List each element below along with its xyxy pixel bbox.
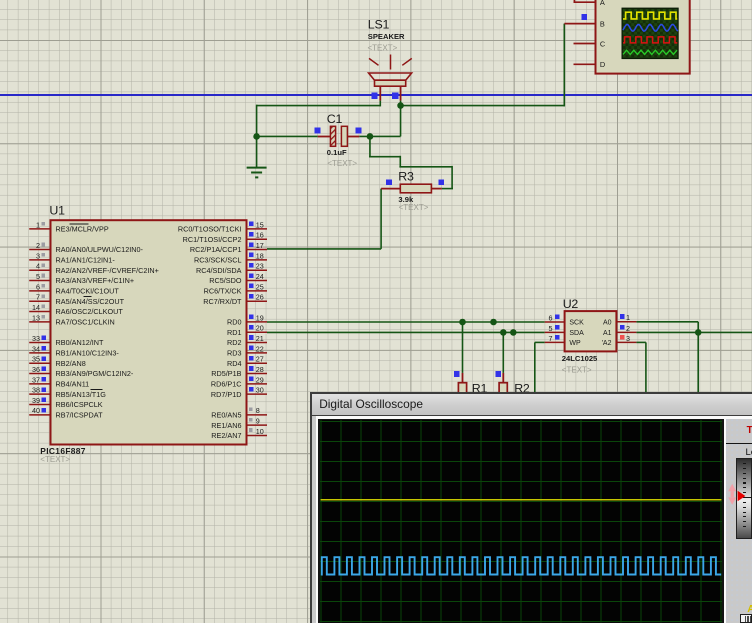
oscilloscope pin B [564, 19, 605, 28]
resistor R2 [499, 373, 507, 397]
svg-text:3: 3 [626, 334, 630, 343]
svg-text:C1: C1 [327, 112, 343, 126]
svg-text:5: 5 [36, 272, 40, 281]
svg-text:LS1: LS1 [368, 18, 390, 32]
svg-text:<TEXT>: <TEXT> [327, 159, 357, 168]
svg-text:RD4: RD4 [227, 359, 242, 368]
svg-text:38: 38 [32, 386, 40, 395]
svg-text:5: 5 [549, 324, 553, 333]
wire U2 A2 down [636, 341, 646, 343]
svg-text:RB4/AN11: RB4/AN11 [56, 379, 90, 388]
svg-text:RE1/AN6: RE1/AN6 [211, 421, 241, 430]
wire U2 A1 node right and down [636, 331, 752, 333]
C1 handle right [356, 128, 362, 134]
speaker pin 2 [400, 86, 402, 100]
wire speaker-right to scope pin B [401, 105, 565, 107]
svg-text:21: 21 [256, 334, 264, 343]
wire speaker-right down to C1-right node [400, 105, 402, 137]
U2 pin 5 SDA [545, 324, 584, 337]
svg-text:30: 30 [256, 386, 264, 395]
wire R2 top to RD1 net [502, 332, 504, 373]
R2 handle [495, 371, 501, 377]
svg-text:RD1: RD1 [227, 328, 242, 337]
svg-text:23: 23 [256, 262, 264, 271]
svg-text:RA6/OSC2/CLKOUT: RA6/OSC2/CLKOUT [56, 307, 124, 316]
svg-text:28: 28 [256, 365, 264, 374]
U1 pin 25 [247, 282, 268, 291]
U1 pin 35 [29, 355, 50, 364]
svg-text:34: 34 [32, 344, 40, 353]
svg-text:26: 26 [256, 293, 264, 302]
svg-text:24: 24 [256, 272, 264, 281]
svg-text:RB3/AN9/PGM/C12IN2-: RB3/AN9/PGM/C12IN2- [56, 369, 134, 378]
oscilloscope pin C [574, 39, 606, 48]
svg-text:0.1uF: 0.1uF [327, 148, 347, 157]
capacitor C1 [318, 126, 360, 146]
node C1-left/ground junction [253, 133, 260, 140]
node RD1 junction 2 [510, 329, 517, 336]
svg-text:RD6/P1C: RD6/P1C [211, 379, 242, 388]
svg-text:RB0/AN12/INT: RB0/AN12/INT [56, 338, 105, 347]
R3 handle right [438, 179, 444, 185]
R3 handle left [386, 179, 392, 185]
U1 pin 4 [29, 262, 50, 271]
U1 pin 1 [29, 220, 50, 229]
U1 pin 27 [247, 355, 268, 364]
U1 pin 34 [29, 344, 50, 353]
node RD0/R1 junction [459, 319, 466, 326]
svg-text:RD2: RD2 [227, 338, 242, 347]
U1 pin 18 [247, 251, 268, 260]
U1 pin 2 [29, 241, 50, 250]
svg-text:4: 4 [36, 262, 40, 271]
svg-text:1: 1 [626, 313, 630, 322]
U1 pin 30 [247, 386, 268, 395]
blue graphics line [0, 94, 752, 96]
U1 pin 20 [247, 324, 268, 333]
U1 pin 38 [29, 386, 50, 395]
svg-text:33: 33 [32, 334, 40, 343]
U1 pin 33 [29, 334, 50, 343]
U1 pin 22 [247, 344, 268, 353]
svg-text:RE0/AN5: RE0/AN5 [211, 410, 241, 419]
svg-text:3: 3 [36, 251, 40, 260]
wire R3 left to U1 pin17 RC2 [380, 189, 382, 249]
svg-text:RA7/OSC1/CLKIN: RA7/OSC1/CLKIN [56, 317, 115, 326]
svg-text:22: 22 [256, 344, 264, 353]
U1 pin 36 [29, 365, 50, 374]
svg-text:RA5/AN4/SS/C2OUT: RA5/AN4/SS/C2OUT [56, 297, 125, 306]
svg-text:WP: WP [569, 340, 581, 347]
svg-text:R3: R3 [398, 170, 414, 184]
node speaker-right junction [397, 102, 404, 109]
wire C1 right node [359, 135, 400, 137]
svg-text:8: 8 [256, 406, 260, 415]
speaker pin 1 [379, 86, 381, 100]
svg-text:RB1/AN10/C12IN3-: RB1/AN10/C12IN3- [56, 348, 120, 357]
svg-text:A1: A1 [603, 330, 612, 337]
svg-text:29: 29 [256, 375, 264, 384]
U1 pin 19 [247, 313, 268, 322]
U1 pin 39 [29, 396, 50, 405]
svg-text:RB5/AN13/T1G: RB5/AN13/T1G [56, 390, 107, 399]
wire RD1 net U1 pin20 to U2 SDA [267, 331, 545, 333]
U2 pin 7 WP [545, 334, 581, 347]
svg-text:RC4/SDI/SDA: RC4/SDI/SDA [196, 266, 242, 275]
svg-text:15: 15 [256, 220, 264, 229]
svg-text:RD3: RD3 [227, 348, 242, 357]
svg-text:6: 6 [36, 282, 40, 291]
U1 pin 28 [247, 365, 268, 374]
svg-text:39: 39 [32, 396, 40, 405]
svg-text:RA1/AN1/C12IN1-: RA1/AN1/C12IN1- [56, 255, 116, 264]
svg-text:RA0/AN0/ULPWU/C12IN0-: RA0/AN0/ULPWU/C12IN0- [56, 245, 144, 254]
svg-text:RC6/TX/CK: RC6/TX/CK [204, 286, 242, 295]
svg-text:C: C [600, 39, 606, 48]
svg-text:<TEXT>: <TEXT> [368, 44, 398, 53]
svg-text:RE3/MCLR/VPP: RE3/MCLR/VPP [56, 225, 109, 234]
svg-text:16: 16 [256, 231, 264, 240]
U1 pin 9 [247, 417, 268, 426]
svg-text:35: 35 [32, 355, 40, 364]
wire R1 top to RD0 net [462, 322, 464, 373]
svg-text:1: 1 [36, 220, 40, 229]
svg-text:40: 40 [32, 406, 40, 415]
svg-text:18: 18 [256, 251, 264, 260]
svg-text:13: 13 [32, 313, 40, 322]
svg-text:A: A [600, 0, 605, 7]
U1 pin 24 [247, 272, 268, 281]
svg-text:36: 36 [32, 365, 40, 374]
oscilloscope pin A stub up [573, 0, 575, 3]
U1 pin 21 [247, 334, 268, 343]
wire C1 node to R3 right (zigzag) [369, 136, 371, 156]
svg-text:A0: A0 [603, 319, 612, 326]
svg-text:20: 20 [256, 324, 264, 333]
U1 left pin labels [56, 224, 159, 419]
U1 pin 6 [29, 282, 50, 291]
IC U2 24LC1025 [565, 311, 617, 351]
svg-text:U1: U1 [49, 204, 65, 218]
U1 pin 13 [29, 313, 50, 322]
node RD1/R2 junction [500, 329, 507, 336]
oscilloscope screen [622, 8, 679, 60]
wire RD0 net U1 pin19 to U2 SCK [267, 321, 545, 323]
U2 pin 6 SCK [545, 313, 584, 326]
U1 pin 3 [29, 251, 50, 260]
speaker handle 1 [371, 93, 377, 99]
resistor R1 [458, 373, 466, 397]
U1 pin 40 [29, 406, 50, 415]
svg-text:24LC1025: 24LC1025 [562, 354, 598, 363]
U1 pin 37 [29, 375, 50, 384]
resistor R3 [381, 184, 442, 193]
IC U1 PIC16F887 [51, 220, 247, 444]
svg-text:2: 2 [626, 324, 630, 333]
svg-text:RC1/T1OSI/CCP2: RC1/T1OSI/CCP2 [183, 235, 242, 244]
speaker LS1 [369, 55, 412, 107]
svg-text:10: 10 [256, 427, 264, 436]
U1 pin 10 [247, 427, 268, 436]
svg-text:<TEXT>: <TEXT> [40, 455, 70, 464]
svg-text:RD7/P1D: RD7/P1D [211, 390, 242, 399]
svg-text:RE2/AN7: RE2/AN7 [211, 431, 241, 440]
svg-text:RC5/SDO: RC5/SDO [209, 276, 242, 285]
node RD0 junction 2 [490, 319, 497, 326]
svg-text:7: 7 [36, 293, 40, 302]
svg-text:RC3/SCK/SCL: RC3/SCK/SCL [194, 255, 242, 264]
R1 handle [454, 371, 460, 377]
node U2 A0/A1 junction [695, 329, 702, 336]
oscilloscope pin D [574, 60, 606, 69]
svg-text:RA3/AN3/VREF+/C1IN+: RA3/AN3/VREF+/C1IN+ [56, 276, 135, 285]
U2 pin 2 A1 [603, 324, 636, 337]
speaker handle 2 [392, 93, 398, 99]
U1 pin 16 [247, 231, 268, 240]
svg-text:27: 27 [256, 355, 264, 364]
U1 pin 15 [247, 220, 268, 229]
svg-text:RC2/P1A/CCP1: RC2/P1A/CCP1 [190, 245, 242, 254]
svg-text:37: 37 [32, 375, 40, 384]
svg-text:9: 9 [256, 417, 260, 426]
svg-text:RC7/RX/DT: RC7/RX/DT [203, 297, 242, 306]
U2 pin 3 'A2 [602, 334, 637, 347]
U1 pin 26 [247, 293, 268, 302]
U1 pin 23 [247, 262, 268, 271]
svg-text:7: 7 [549, 334, 553, 343]
svg-text:RB2/AN8: RB2/AN8 [56, 359, 86, 368]
U2 pin 1 A0 [603, 313, 636, 326]
svg-text:SCK: SCK [569, 320, 584, 327]
ground [247, 136, 267, 177]
U1 pin 29 [247, 375, 268, 384]
svg-text:RB6/ICSPCLK: RB6/ICSPCLK [56, 400, 103, 409]
svg-text:17: 17 [256, 241, 264, 250]
U1 right pin labels [178, 225, 242, 441]
svg-text:6: 6 [549, 313, 553, 322]
svg-text:RD5/P1B: RD5/P1B [211, 369, 241, 378]
oscilloscope pin A [574, 0, 605, 7]
wire U2 WP down [535, 341, 545, 343]
svg-text:14: 14 [32, 303, 40, 312]
wire U2 A0 to node [636, 321, 698, 323]
oscilloscope handle B [581, 14, 587, 20]
svg-text:SDA: SDA [569, 330, 584, 337]
U1 pin 7 [29, 293, 50, 302]
svg-text:<TEXT>: <TEXT> [399, 203, 429, 212]
svg-text:2: 2 [36, 241, 40, 250]
oscilloscope component [596, 0, 690, 74]
svg-text:RD0: RD0 [227, 317, 242, 326]
svg-text:RA4/T0CKI/C1OUT: RA4/T0CKI/C1OUT [56, 286, 120, 295]
svg-text:19: 19 [256, 313, 264, 322]
U1 pin 5 [29, 272, 50, 281]
svg-text:25: 25 [256, 282, 264, 291]
U1 pin 17 [247, 241, 268, 250]
wire C1 left to ground node [257, 135, 318, 137]
svg-text:U2: U2 [563, 297, 579, 311]
svg-text:RC0/T1OSO/T1CKI: RC0/T1OSO/T1CKI [178, 225, 242, 234]
U1 pin 14 [29, 303, 50, 312]
svg-text:RB7/ICSPDAT: RB7/ICSPDAT [56, 410, 104, 419]
svg-text:D: D [600, 60, 605, 69]
wire speaker-left to C1-left net [257, 105, 381, 107]
U1 pin 8 [247, 406, 268, 415]
svg-text:SPEAKER: SPEAKER [368, 32, 405, 41]
node C1-right junction [367, 133, 374, 140]
svg-text:'A2: 'A2 [602, 340, 612, 347]
svg-text:B: B [600, 19, 605, 28]
svg-text:RA2/AN2/VREF-/CVREF/C2IN+: RA2/AN2/VREF-/CVREF/C2IN+ [56, 266, 159, 275]
C1 handle left [315, 128, 321, 134]
svg-text:<TEXT>: <TEXT> [562, 365, 592, 374]
